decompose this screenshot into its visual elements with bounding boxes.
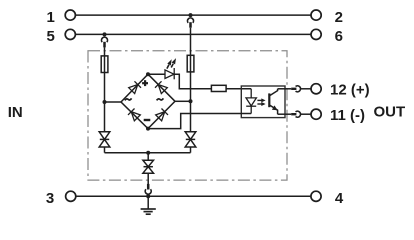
svg-text:OUT: OUT: [374, 104, 406, 121]
wire: left branch vertical (to surge arrester): [104, 47, 106, 132]
svg-text:3: 3: [46, 190, 54, 207]
surge arrester left (bidirectional suppressor): [99, 132, 110, 147]
svg-text:IN: IN: [8, 104, 23, 121]
polarity mark ~ left: [125, 98, 132, 100]
wire: common rail: [105, 152, 191, 154]
svg-text:5: 5: [46, 28, 54, 45]
plug socket below line 1: [188, 18, 194, 23]
wire: bridge ~ to right branch: [175, 100, 191, 102]
plug socket on line 3: [145, 189, 151, 194]
junction: left branch / bridge input: [103, 100, 107, 104]
bridge diode D1 (lower-left to +): [129, 81, 141, 93]
junction: right branch / bridge input: [189, 99, 193, 103]
terminal 5: [65, 29, 75, 39]
wire: ground arrester to plug pin: [147, 173, 149, 184]
node: bridge + corner: [146, 72, 150, 76]
opto LED: [246, 89, 256, 114]
svg-text:6: 6: [335, 28, 343, 45]
plug pin 12: [291, 88, 296, 90]
wire line 3-4: [76, 195, 311, 197]
wire: right branch vertical (to surge arrester): [190, 28, 192, 132]
svg-text:1: 1: [46, 9, 54, 26]
resistor R1: [211, 85, 226, 91]
surge arrester to ground (bidirectional suppressor): [143, 160, 154, 173]
plug socket below line 5: [102, 37, 108, 42]
wire: ground branch down: [147, 153, 149, 161]
LED emission arrows: [167, 58, 176, 69]
node: bridge - corner: [146, 127, 150, 131]
svg-text:2: 2: [335, 9, 343, 26]
earth ground: [141, 196, 156, 214]
diode bridge outline: [121, 74, 175, 128]
bridge diode D2 (lower-right to +): [155, 81, 167, 93]
plug pin of left branch: [103, 42, 106, 48]
wire line 5-6: [75, 33, 311, 35]
terminal 12: [311, 84, 321, 94]
terminal 6: [311, 29, 321, 39]
opto light arrows: [257, 98, 265, 106]
terminal 4: [311, 191, 321, 201]
junction: common rail / ground branch: [146, 151, 150, 155]
terminal 1: [65, 10, 75, 20]
wire: socket to terminal 11: [300, 113, 311, 115]
svg-text:4: 4: [335, 190, 344, 207]
terminal 2: [311, 10, 321, 20]
wire line 1-2: [75, 14, 311, 16]
svg-text:11 (-): 11 (-): [330, 107, 365, 124]
wire: resistor to optocoupler: [226, 88, 251, 90]
svg-text:12 (+): 12 (+): [330, 82, 370, 99]
wire: opto LED return to bridge -: [148, 114, 251, 129]
wire: collector to output socket 12: [278, 88, 292, 90]
plug socket 12: [296, 86, 301, 92]
wire: socket to terminal 12: [300, 88, 311, 90]
polarity mark +: [142, 80, 148, 86]
terminal 11: [311, 109, 321, 119]
wire: bridge + to indicator LED: [148, 73, 165, 75]
wire: emitter to output socket 11: [278, 113, 292, 115]
indicator LED V1: [165, 68, 174, 79]
wire: right arrester to common rail: [190, 147, 192, 153]
plug socket 11: [296, 111, 301, 117]
wire: left branch to bridge ~ input: [105, 101, 122, 103]
polarity mark -: [144, 119, 151, 121]
wire: LED to resistor row: [174, 74, 211, 89]
optocoupler U1 package: [241, 86, 285, 118]
surge arrester right (bidirectional suppressor): [185, 132, 196, 147]
fuse F1: [101, 56, 108, 73]
plug pin of right branch: [189, 22, 192, 28]
terminal 3: [66, 191, 76, 201]
wire: left arrester to common rail: [104, 147, 106, 153]
node: tap of right branch on line 1: [189, 13, 193, 17]
plug pin 11: [291, 113, 296, 115]
node: tap of left branch on line 5: [103, 32, 107, 36]
junction: ground branch on line 3: [146, 194, 150, 198]
bridge diode D4 (- to right ~): [156, 108, 168, 120]
polarity mark ~ right: [157, 98, 164, 100]
fuse F2: [187, 55, 194, 72]
dash-dot enclosure (pluggable protection module outline): [88, 51, 287, 180]
phototransistor Q1: [269, 89, 277, 114]
bridge diode D3 (- to left ~): [128, 108, 140, 120]
plug pin of ground branch: [147, 184, 150, 190]
